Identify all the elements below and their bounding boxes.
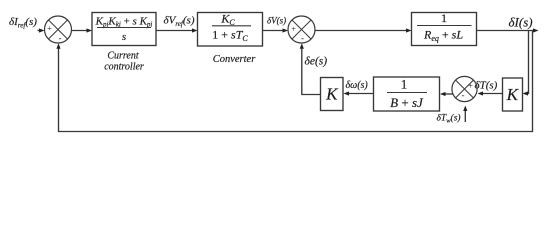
svg-text:+: + <box>47 23 52 33</box>
svg-text:controller: controller <box>104 62 144 73</box>
wire S2 to block 1/(Req+sL) <box>315 28 412 32</box>
wire dTw(s) input arrow into S3 <box>463 106 467 123</box>
wire right K to summing junction S3 <box>478 91 503 95</box>
wire 1/(B+sJ) to left K block <box>344 91 374 95</box>
svg-text:δI(s): δI(s) <box>509 15 533 30</box>
node dV_ref(s) label <box>164 15 195 29</box>
svg-text:K: K <box>506 85 520 104</box>
wire branch down to right K block <box>523 31 529 96</box>
node dT(s) label <box>475 80 498 92</box>
block current controller (Kpi Kki + s Kpi)/s <box>92 13 156 46</box>
node dTw(s) disturbance input label <box>437 113 461 125</box>
wire converter to summing junction S2 <box>263 28 289 32</box>
summing junction S2 <box>288 16 315 43</box>
label Converter <box>213 54 256 65</box>
block 1/(Req+sL) <box>412 11 477 46</box>
svg-text:+: + <box>468 81 473 91</box>
block converter Kc/(1+sTc) <box>198 12 263 47</box>
svg-text:δT(s): δT(s) <box>475 80 498 92</box>
svg-text:B + sJ: B + sJ <box>390 95 424 110</box>
label Current controller <box>104 51 144 73</box>
wire S1 to current controller block <box>72 28 93 32</box>
node dI_ref(s) input label <box>9 16 37 30</box>
svg-text:-: - <box>59 33 62 43</box>
summing junction S3 <box>452 76 477 101</box>
node dV(s) label <box>267 16 286 26</box>
wire S3 to block 1/(B+sJ) <box>440 92 453 96</box>
block K right (torque constant) <box>503 78 523 111</box>
wire outer feedback loop from output to S1 <box>56 31 532 132</box>
svg-text:s: s <box>122 31 126 43</box>
svg-text:-: - <box>462 90 465 100</box>
node dw(s) speed label <box>346 80 369 91</box>
wire input to summing junction S1 <box>38 28 45 32</box>
wire left K up to summing junction S2 with de(s) <box>300 43 321 94</box>
node dI(s) output label <box>509 15 533 30</box>
block K left (emf constant) <box>321 78 344 111</box>
svg-text:-: - <box>301 33 304 43</box>
svg-text:1: 1 <box>401 77 408 92</box>
svg-text:Converter: Converter <box>213 54 256 65</box>
svg-text:+: + <box>291 24 296 34</box>
svg-text:δV(s): δV(s) <box>267 16 286 26</box>
svg-text:Req + sL: Req + sL <box>423 28 463 44</box>
svg-text:1: 1 <box>441 11 447 25</box>
summing junction S1 <box>45 16 72 43</box>
wire block 1/(Req+sL) to output <box>477 28 539 32</box>
node de(s) back-emf label <box>305 56 328 68</box>
block 1/(B+sJ) <box>374 77 440 112</box>
svg-text:δe(s): δe(s) <box>305 56 328 68</box>
svg-text:Current: Current <box>107 51 139 62</box>
svg-text:δω(s): δω(s) <box>346 80 369 91</box>
wire current controller to converter block <box>156 28 198 32</box>
svg-text:K: K <box>325 85 339 104</box>
